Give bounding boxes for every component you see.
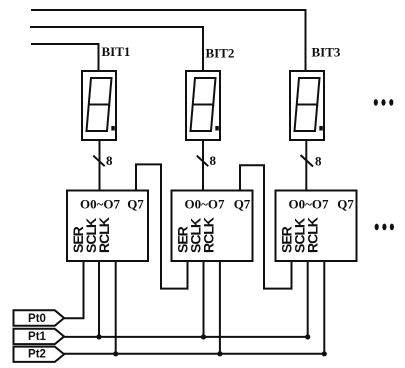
7-seg display DS3 digit segments: [295, 78, 320, 131]
svg-text:Q7: Q7: [234, 197, 251, 212]
svg-text:O0~O7: O0~O7: [289, 197, 329, 212]
wire U2 RCLK pin down: [219, 261, 221, 354]
svg-text:Pt2: Pt2: [28, 349, 46, 361]
shift register U1 box: [67, 191, 148, 262]
wire bus DS3 to U3: [305, 140, 307, 191]
7-seg display DS3 (BIT3) body: [290, 71, 324, 140]
ellipsis continuation top: [374, 99, 378, 106]
svg-text:BIT2: BIT2: [206, 46, 235, 61]
decimal point DS1: [111, 126, 115, 131]
7-seg display DS1 digit segments: [87, 78, 112, 131]
junction U1 RCLK / Pt2: [113, 351, 118, 356]
junction U3 RCLK / Pt2: [322, 351, 327, 356]
decimal point DS2: [215, 126, 219, 131]
wire bus DS2 to U2: [202, 140, 204, 191]
junction U1 SCLK / Pt1: [96, 334, 101, 339]
bus slash marker 3: [301, 156, 312, 166]
wire Pt1 bus line: [64, 336, 308, 338]
wire U1 RCLK pin down: [115, 261, 117, 354]
connector flag Pt0: [14, 310, 65, 326]
wire middle feed to BIT2: [31, 27, 203, 71]
svg-text:8: 8: [315, 154, 322, 169]
7-seg display DS1 (BIT1) body: [82, 71, 116, 140]
wire top feed to BIT3: [32, 10, 306, 71]
svg-text:Q7: Q7: [127, 197, 144, 212]
svg-text:BIT1: BIT1: [102, 44, 131, 59]
ellipsis continuation bottom: [375, 224, 379, 231]
wire Pt2 bus line: [64, 353, 324, 355]
wire U2 SCLK pin down: [203, 261, 205, 337]
wire U1 SCLK pin down: [98, 261, 100, 337]
svg-text:Pt0: Pt0: [28, 313, 46, 325]
svg-text:Q7: Q7: [337, 197, 354, 212]
svg-text:8: 8: [210, 153, 217, 168]
bus slash marker 2: [198, 156, 208, 165]
svg-text:RCLK: RCLK: [96, 217, 112, 253]
svg-text:O0~O7: O0~O7: [185, 197, 225, 212]
wire U3 RCLK pin down: [323, 261, 325, 354]
wire U1 Q7 to U2 SER: [136, 164, 188, 288]
bus slash marker 1: [94, 156, 104, 165]
wire lower feed to BIT1: [32, 44, 99, 71]
7-seg display DS2 digit segments: [191, 78, 216, 131]
svg-text:RCLK: RCLK: [201, 217, 217, 253]
shift register U3 box: [276, 191, 357, 262]
wire U3 SCLK pin down: [307, 261, 309, 337]
connector flag Pt1: [14, 329, 65, 344]
wire U2 Q7 to U3 SER: [240, 165, 292, 288]
svg-text:8: 8: [106, 153, 113, 168]
svg-text:RCLK: RCLK: [305, 217, 321, 253]
junction U2 SCLK / Pt1: [201, 334, 206, 339]
svg-text:BIT3: BIT3: [312, 45, 341, 60]
junction U2 RCLK / Pt2: [217, 351, 222, 356]
svg-text:O0~O7: O0~O7: [80, 197, 120, 212]
7-seg display DS2 (BIT2) body: [186, 71, 220, 140]
junction U3 SCLK / Pt1: [305, 334, 310, 339]
svg-text:Pt1: Pt1: [28, 331, 47, 343]
connector flag Pt2: [14, 347, 65, 362]
shift register U2 box: [172, 191, 253, 262]
wire U1 SER pin to Pt0: [64, 261, 84, 318]
wire bus DS1 to U1: [99, 140, 101, 191]
decimal point DS3: [319, 126, 323, 131]
